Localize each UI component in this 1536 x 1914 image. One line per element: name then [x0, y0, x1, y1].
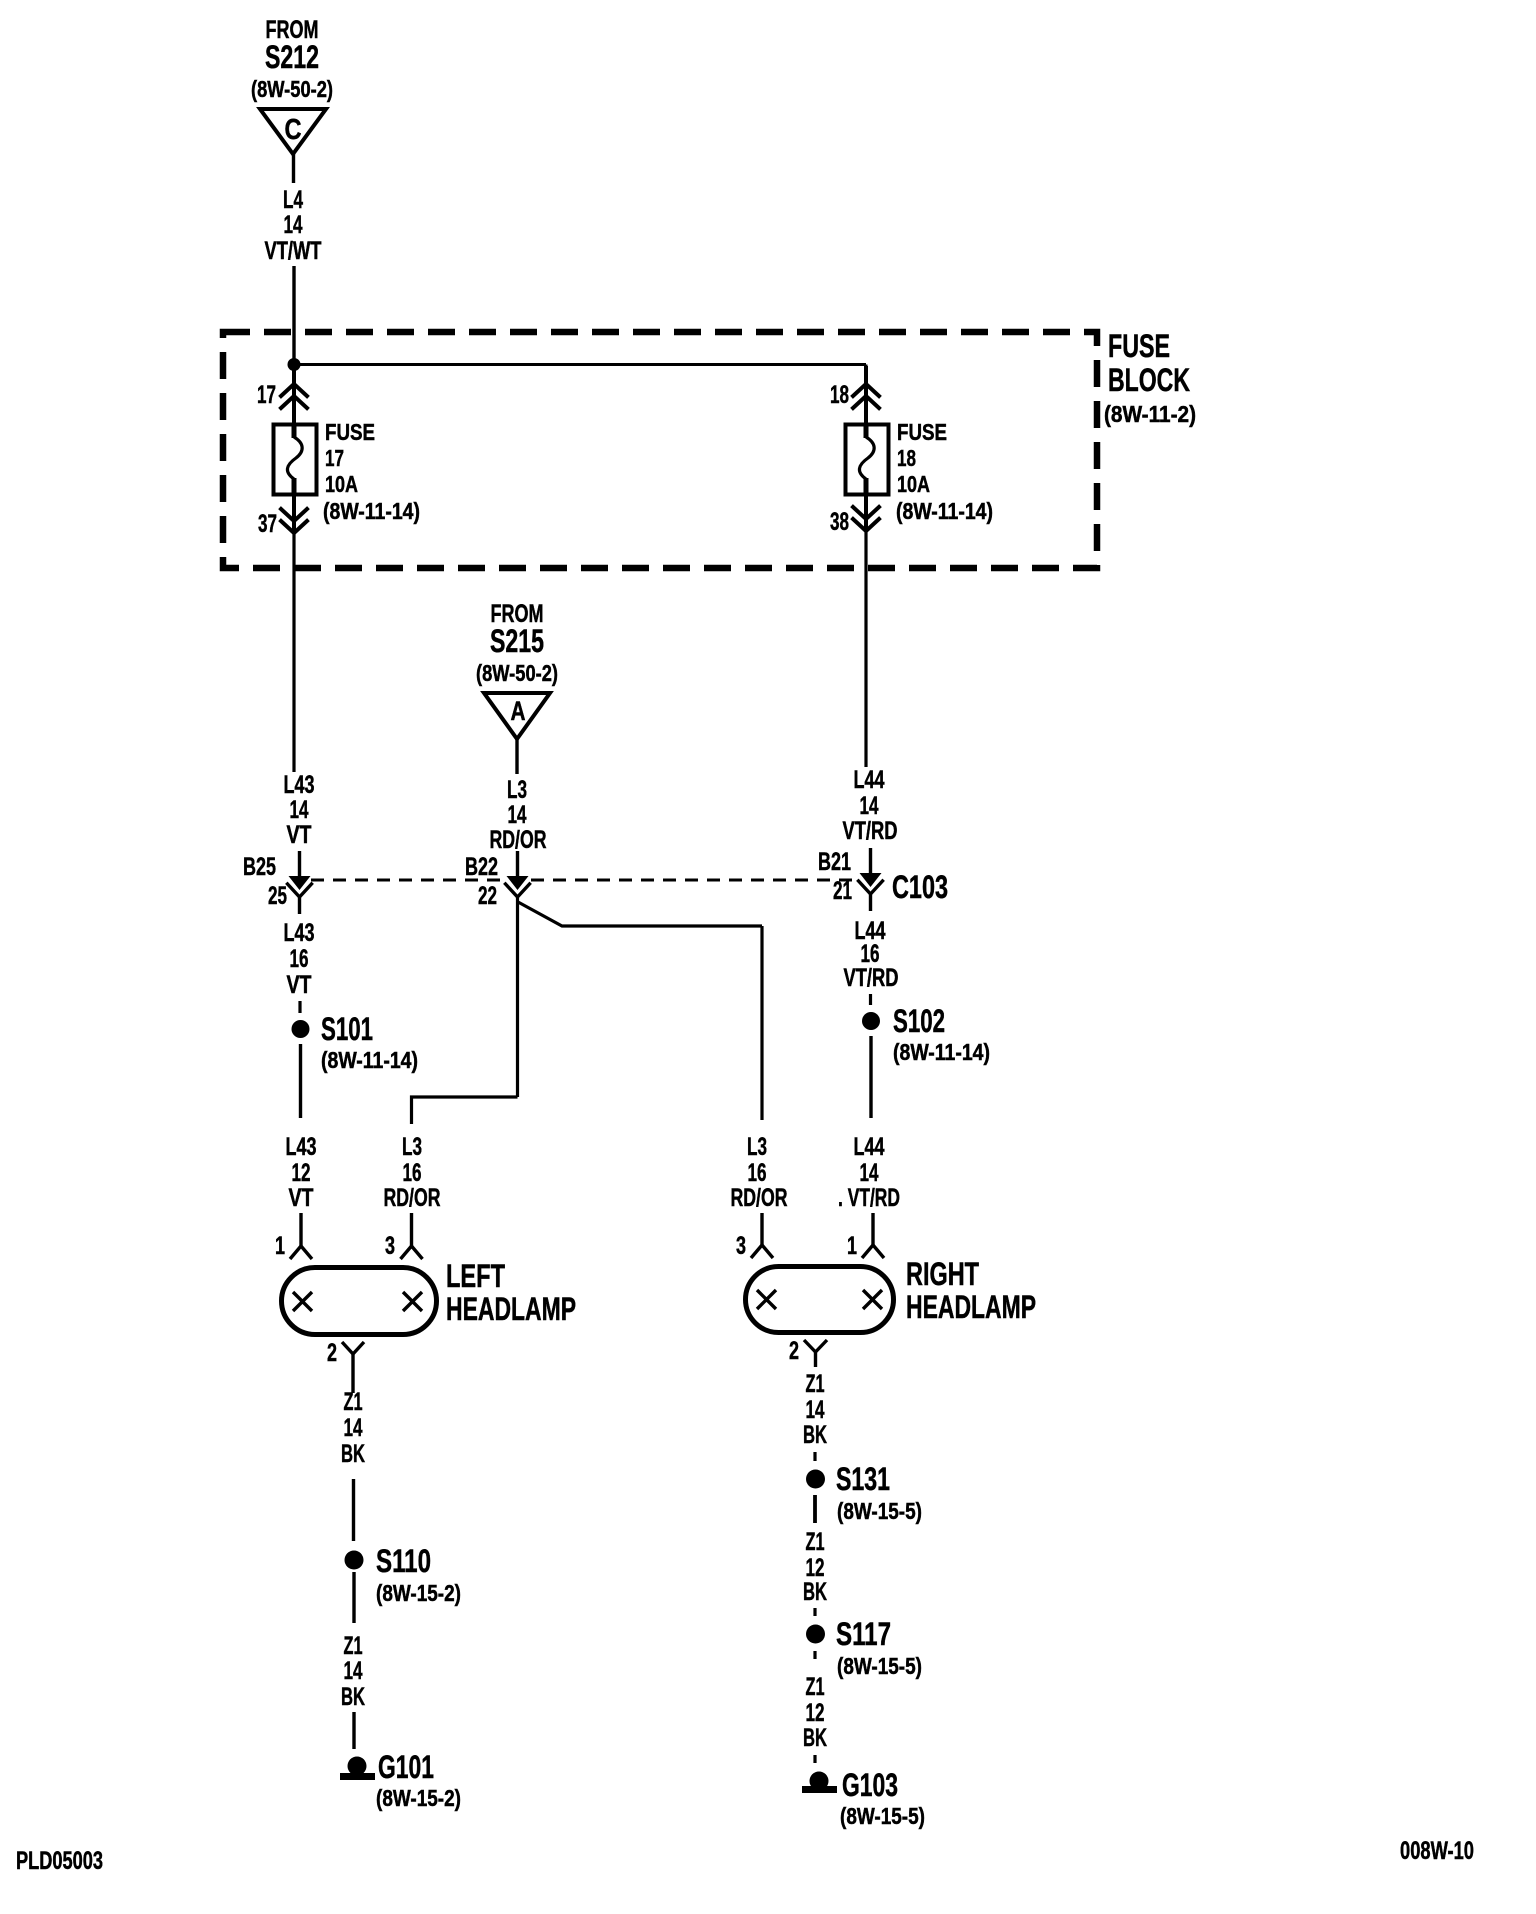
svg-text:(8W-11-14): (8W-11-14) [321, 1047, 418, 1073]
wire L4 into fuse block [292, 266, 295, 364]
svg-text:VT: VT [287, 971, 312, 999]
svg-text:L43: L43 [284, 919, 315, 947]
svg-text:21: 21 [833, 877, 852, 905]
svg-text:RD/OR: RD/OR [490, 826, 547, 854]
svg-text:3: 3 [385, 1232, 395, 1260]
svg-text:12: 12 [806, 1699, 825, 1727]
wire from C to label L4 [292, 154, 295, 183]
svg-text:10A: 10A [325, 471, 358, 497]
left headlamp name [446, 1258, 576, 1327]
svg-text:14: 14 [344, 1414, 363, 1442]
svg-text:12: 12 [292, 1159, 311, 1187]
svg-text:16: 16 [403, 1159, 422, 1187]
svg-text:(8W-50-2): (8W-50-2) [251, 76, 333, 102]
pin 3 fork (left headlamp) [401, 1213, 423, 1259]
svg-text:FUSE: FUSE [325, 419, 375, 445]
svg-text:FUSE: FUSE [897, 419, 947, 445]
svg-text:(8W-50-2): (8W-50-2) [476, 660, 558, 686]
wire label Z1 14 BK (right) [803, 1370, 827, 1449]
svg-text:VT: VT [289, 1184, 314, 1212]
svg-text:14: 14 [344, 1657, 363, 1685]
svg-text:(8W-15-5): (8W-15-5) [837, 1498, 922, 1524]
svg-text:S131: S131 [836, 1461, 890, 1497]
svg-text:L4: L4 [283, 186, 303, 214]
svg-text:PLD05003: PLD05003 [16, 1847, 103, 1875]
off-page connector A triangle [484, 693, 550, 739]
svg-text:008W-10: 008W-10 [1400, 1837, 1474, 1865]
wire from B22 down [516, 897, 519, 1097]
wire fuse18 to chevrons [864, 495, 868, 532]
wire into fuse 18 [864, 366, 868, 425]
wire label L43 14 VT [284, 771, 315, 849]
wire label L3 16 RD/OR (to left pin 3) [384, 1133, 441, 1212]
wire L44 down from fuse block [864, 531, 867, 767]
svg-text:Z1: Z1 [806, 1673, 825, 1701]
right headlamp body [746, 1267, 894, 1333]
pin 38 chevrons [853, 507, 879, 531]
svg-text:14: 14 [290, 796, 309, 824]
svg-text:18: 18 [897, 445, 916, 471]
svg-text:14: 14 [860, 792, 879, 820]
fuse F17 body [274, 424, 317, 495]
svg-text:L3: L3 [402, 1133, 422, 1161]
wire label L43 12 VT (to pin 1) [286, 1133, 317, 1212]
pin 1 fork (right headlamp) [862, 1213, 884, 1258]
svg-text:S101: S101 [321, 1011, 373, 1047]
wire from A to label L3 [515, 739, 518, 774]
svg-text:(8W-11-14): (8W-11-14) [323, 498, 420, 524]
svg-text:16: 16 [748, 1159, 767, 1187]
svg-text:(8W-15-5): (8W-15-5) [840, 1803, 925, 1829]
wire into fuse 17 [292, 366, 296, 425]
dashed harness line between connectors [311, 879, 858, 882]
ground G103 symbol [802, 1772, 837, 1791]
svg-text:L3: L3 [747, 1133, 767, 1161]
wire jog to left headlamp pin 3 [412, 1097, 518, 1124]
svg-text:18: 18 [830, 381, 849, 409]
svg-text:L44: L44 [854, 766, 885, 794]
svg-text:(8W-11-14): (8W-11-14) [893, 1039, 990, 1065]
svg-text:37: 37 [258, 510, 277, 538]
svg-text:G103: G103 [842, 1767, 898, 1803]
wire label L44 16 VT/RD [844, 917, 899, 992]
svg-text:S215: S215 [490, 623, 544, 659]
pin 2 fork (right headlamp) [804, 1340, 827, 1367]
svg-text:17: 17 [325, 445, 344, 471]
svg-text:BK: BK [803, 1421, 827, 1449]
wire Z1 left down [352, 1479, 355, 1541]
svg-text:VT/RD: VT/RD [843, 817, 898, 845]
svg-text:Z1: Z1 [806, 1370, 825, 1398]
connector B21 symbol [859, 848, 883, 911]
pin 1 fork (left headlamp) [290, 1213, 312, 1259]
svg-text:HEADLAMP: HEADLAMP [446, 1291, 576, 1327]
svg-text:S110: S110 [376, 1543, 431, 1579]
fuse block label FUSE BLOCK (8W-11-2) [1104, 328, 1196, 427]
off-page connector C label (FROM S212 8W-50-2) [251, 16, 333, 102]
wire label Z1 14 BK (left lower) [341, 1632, 365, 1711]
svg-text:2: 2 [789, 1337, 799, 1365]
svg-text:L43: L43 [286, 1133, 317, 1161]
svg-text:14: 14 [860, 1159, 879, 1187]
wire label Z1 12 BK (right lower) [803, 1673, 827, 1752]
splice S117 [806, 1625, 825, 1644]
svg-text:10A: 10A [897, 471, 930, 497]
svg-text:22: 22 [478, 882, 497, 910]
wire label L43 16 VT [284, 919, 315, 999]
right headlamp bulb X left [757, 1290, 776, 1309]
svg-text:B21: B21 [818, 848, 851, 876]
wire S110 down [352, 1572, 355, 1623]
node junction at fuse block feed [288, 358, 301, 371]
fuse F18 label FUSE 18 10A (8W-11-14) [896, 419, 993, 524]
svg-text:(8W-15-2): (8W-15-2) [376, 1785, 461, 1811]
svg-text:BK: BK [803, 1724, 827, 1752]
connector B25 symbol [288, 851, 312, 914]
wire S131 down [813, 1495, 817, 1523]
svg-text:16: 16 [290, 945, 309, 973]
left headlamp body [282, 1268, 437, 1335]
off-page connector A label (FROM S215 8W-50-2) [476, 600, 558, 686]
pin 18 chevrons [853, 384, 879, 408]
fuse F18 body [846, 424, 889, 495]
right headlamp bulb X right [863, 1290, 882, 1309]
wire to ground G101 [352, 1712, 355, 1749]
svg-text:L44: L44 [854, 1133, 885, 1161]
fuse block dashed outline [223, 332, 1097, 568]
wire label L44 14 VT/RD [843, 766, 898, 845]
svg-text:14: 14 [806, 1396, 825, 1424]
wire stub below S117 [813, 1651, 816, 1659]
splice S131 [806, 1470, 825, 1489]
wire L43 down from fuse block [292, 533, 295, 772]
splice S110 label [376, 1543, 461, 1606]
ground G101 symbol [340, 1757, 375, 1777]
svg-text:BK: BK [341, 1440, 365, 1468]
svg-text:BK: BK [341, 1683, 365, 1711]
svg-text:1: 1 [275, 1232, 285, 1260]
wire bus from node to fuse 18 [294, 363, 866, 366]
svg-text:G101: G101 [378, 1749, 434, 1785]
svg-text:VT/RD: VT/RD [844, 964, 899, 992]
wire stub to ground G103 [813, 1755, 816, 1763]
pin 2 fork (left headlamp) [342, 1342, 364, 1393]
svg-text:. VT/RD: . VT/RD [838, 1184, 900, 1212]
svg-text:Z1: Z1 [344, 1388, 363, 1416]
wire S102 down [869, 1036, 872, 1118]
wire drop to pin 18 [865, 365, 868, 385]
ground G103 label [840, 1767, 925, 1829]
splice S117 label [836, 1616, 922, 1679]
splice S110 [345, 1551, 364, 1570]
pin 17 chevrons [281, 384, 307, 408]
left headlamp bulb X right [403, 1292, 422, 1311]
svg-text:VT: VT [287, 821, 312, 849]
splice S131 label [836, 1461, 922, 1524]
svg-text:Z1: Z1 [806, 1528, 825, 1556]
pin 37 chevrons [281, 509, 307, 533]
svg-text:25: 25 [268, 882, 287, 910]
svg-text:RIGHT: RIGHT [906, 1256, 979, 1292]
ground G101 label [376, 1749, 461, 1811]
wire branch diagonal from B22 [518, 902, 762, 926]
svg-text:14: 14 [284, 211, 303, 239]
fuse F17 label FUSE 17 10A (8W-11-14) [323, 419, 420, 524]
svg-text:L43: L43 [284, 771, 315, 799]
splice S102 label [893, 1003, 990, 1065]
svg-text:38: 38 [830, 508, 849, 536]
svg-text:1: 1 [847, 1232, 857, 1260]
svg-text:B22: B22 [465, 853, 498, 881]
svg-text:A: A [511, 696, 526, 726]
left headlamp bulb X left [293, 1292, 312, 1311]
wire stub above S102 [869, 994, 872, 1005]
svg-text:14: 14 [508, 801, 527, 829]
wire label L44 14 .VT/RD (to right pin 1) [838, 1133, 900, 1212]
svg-text:C: C [285, 114, 302, 146]
svg-text:(8W-11-2): (8W-11-2) [1104, 401, 1196, 427]
wire S101 down [299, 1044, 302, 1118]
svg-text:(8W-15-5): (8W-15-5) [837, 1653, 922, 1679]
svg-text:HEADLAMP: HEADLAMP [906, 1289, 1036, 1325]
connector B22 symbol [506, 851, 530, 897]
svg-text:2: 2 [327, 1339, 337, 1367]
wire label L3 16 RD/OR (to right pin 3) [731, 1133, 788, 1212]
svg-text:Z1: Z1 [344, 1632, 363, 1660]
svg-text:VT/WT: VT/WT [265, 237, 322, 265]
svg-text:LEFT: LEFT [446, 1258, 505, 1294]
wire label L4 14 VT/WT [265, 186, 322, 265]
svg-text:(8W-15-2): (8W-15-2) [376, 1580, 461, 1606]
svg-text:L3: L3 [507, 776, 527, 804]
svg-text:S102: S102 [893, 1003, 945, 1039]
svg-text:C103: C103 [892, 869, 948, 905]
svg-text:BK: BK [803, 1578, 827, 1606]
svg-text:S117: S117 [836, 1616, 891, 1652]
svg-text:B25: B25 [243, 853, 276, 881]
wire L3 right branch down [760, 926, 763, 1120]
svg-text:RD/OR: RD/OR [384, 1184, 441, 1212]
svg-text:BLOCK: BLOCK [1108, 362, 1190, 398]
off-page connector C triangle [260, 109, 326, 154]
wire stub above S117 [813, 1608, 816, 1616]
wire label L3 14 RD/OR [490, 776, 547, 854]
svg-text:(8W-11-14): (8W-11-14) [896, 498, 993, 524]
svg-text:S212: S212 [265, 39, 319, 75]
wire stub above S131 [813, 1452, 816, 1461]
pin 3 fork (right headlamp) [751, 1213, 773, 1258]
splice S102 [862, 1012, 880, 1030]
wire stub above S101 [298, 1001, 301, 1013]
svg-text:3: 3 [736, 1232, 746, 1260]
svg-text:FUSE: FUSE [1108, 328, 1170, 364]
splice S101 label [321, 1011, 418, 1073]
wire label Z1 12 BK (right mid) [803, 1528, 827, 1606]
svg-text:RD/OR: RD/OR [731, 1184, 788, 1212]
right headlamp name [906, 1256, 1036, 1325]
wire fuse17 to chevrons [292, 495, 296, 534]
wire label Z1 14 BK (left) [341, 1388, 365, 1468]
svg-text:17: 17 [257, 381, 276, 409]
splice S101 [292, 1020, 310, 1038]
